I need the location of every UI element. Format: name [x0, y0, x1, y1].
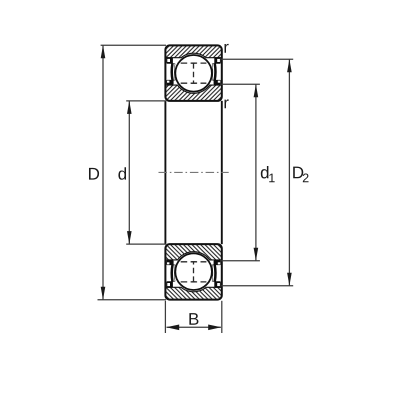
B extension lines — [164, 301, 166, 333]
arrowheads — [101, 45, 292, 330]
d1 arrows — [254, 84, 259, 97]
D2 arrows — [287, 59, 292, 72]
dimension line D — [102, 45, 104, 299]
label D — [89, 168, 99, 180]
label d1 (subscript 1) — [269, 174, 274, 183]
d arrows — [127, 101, 132, 114]
bearing side face lines — [165, 101, 221, 244]
d extension lines — [126, 100, 166, 102]
D2 extension lines — [221, 58, 293, 60]
label d — [118, 167, 126, 179]
bearing bottom half-section (mirrored) — [165, 244, 221, 300]
bearing top half-section — [165, 45, 221, 101]
axis centerline — [159, 171, 229, 173]
label r top — [225, 44, 229, 53]
dimension line B — [167, 326, 221, 328]
D arrows — [101, 45, 106, 58]
dimension line D2 — [288, 59, 290, 286]
dimension line d1 — [255, 84, 257, 260]
label B — [189, 313, 198, 325]
dimension line d — [128, 101, 130, 244]
label D2 (D) — [293, 167, 303, 179]
label r bottom — [225, 99, 229, 108]
label d1 (d) — [261, 166, 269, 178]
extension + dimension lines — [98, 45, 294, 333]
B arrows — [166, 325, 179, 331]
d1 extension lines — [221, 83, 260, 85]
label D2 (subscript 2) — [303, 173, 309, 182]
D extension lines — [101, 44, 166, 46]
